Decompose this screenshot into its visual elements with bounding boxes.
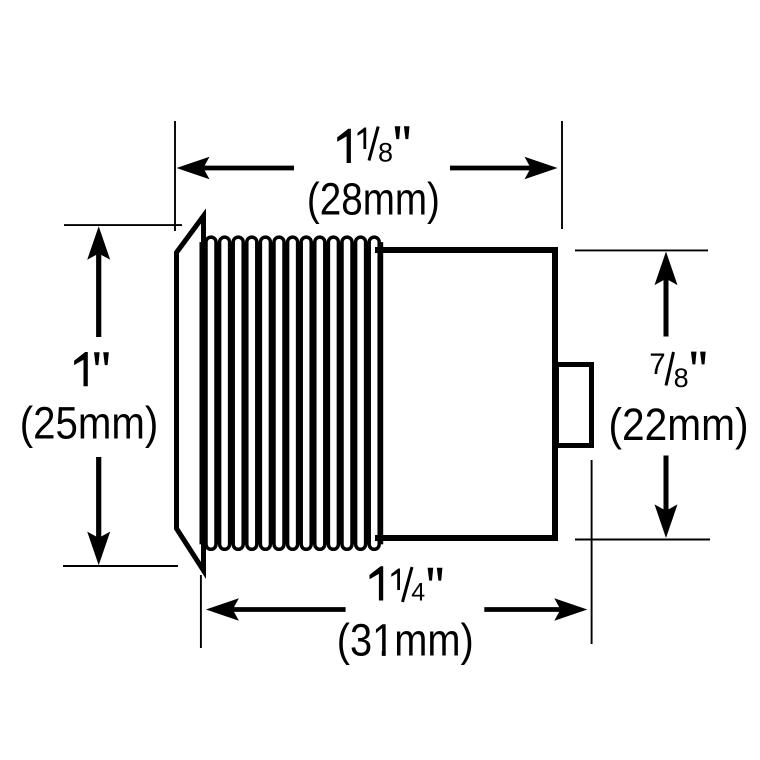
top dimension left arrow [177, 157, 295, 179]
left dimension up arrow [87, 226, 110, 337]
right dimension extension line top [575, 249, 708, 251]
left dimension extension line bottom [63, 565, 178, 567]
flange (front bevel plate of cylinder) [177, 216, 204, 571]
bottom dimension left arrow [206, 598, 346, 621]
left dimension label 1 inch [74, 352, 109, 386]
svg-text:8: 8 [378, 138, 393, 168]
patch: remove foot serif of 1 in (31mm) [375, 651, 394, 656]
bottom dimension label 1 1/4 inch [370, 566, 443, 606]
svg-text:7: 7 [649, 348, 665, 381]
cam tab [557, 365, 592, 446]
svg-text:(28mm): (28mm) [307, 173, 440, 224]
top dimension extension line left [174, 121, 176, 231]
right dimension up arrow [655, 252, 678, 337]
bottom dimension right arrow [484, 598, 587, 621]
svg-text:(22mm): (22mm) [609, 399, 749, 450]
cylinder body [375, 250, 555, 538]
top dimension right arrow [450, 157, 558, 179]
left dimension extension line top [64, 224, 182, 226]
right dimension down arrow [655, 456, 678, 539]
bottom dimension extension line left [200, 575, 202, 648]
left dimension down arrow [87, 457, 110, 565]
svg-text:4: 4 [411, 578, 425, 606]
right dimension label 7/8 inch [649, 348, 706, 393]
svg-text:(25mm): (25mm) [20, 398, 159, 449]
svg-text:(31mm): (31mm) [337, 615, 474, 666]
top dimension extension line right [561, 121, 563, 229]
top dimension label 1 1/8 inch [337, 126, 409, 167]
svg-text:8: 8 [674, 363, 689, 393]
bottom dimension extension line right [591, 460, 593, 644]
right dimension extension line bottom [575, 539, 710, 541]
threads (threaded barrel) [200, 235, 384, 551]
